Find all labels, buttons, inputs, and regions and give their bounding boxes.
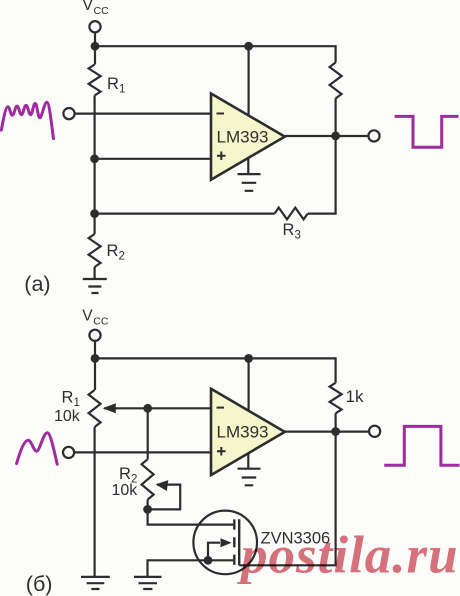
op-amp minus pin label (a) bbox=[217, 113, 225, 115]
svg-text:postila.ru: postila.ru bbox=[237, 527, 459, 585]
label (а) bbox=[24, 272, 50, 296]
body arrowhead Q1 bbox=[221, 538, 232, 547]
node R2 bottom junction (b) bbox=[143, 505, 152, 514]
ground op-amp (a) bbox=[238, 174, 261, 191]
svg-text:1: 1 bbox=[74, 397, 80, 409]
resistor R3 (a) bbox=[275, 208, 308, 220]
node output junction (a) bbox=[331, 132, 340, 141]
op-amp plus pin label (a) bbox=[217, 152, 226, 161]
wire R1 bottom to R2 top (a) bbox=[93, 96, 95, 235]
label R2 (a) bbox=[107, 242, 125, 263]
wire divider node to non-inverting input (a) bbox=[95, 158, 211, 160]
Vcc terminal (a) bbox=[89, 21, 100, 32]
svg-text:R: R bbox=[107, 75, 119, 93]
node divider junction to + input (a) bbox=[90, 154, 99, 163]
label 1k (b) bbox=[346, 387, 364, 406]
wire Vcc terminal to R1 top (a) bbox=[94, 32, 96, 64]
wire R1 bottom to ground (b) bbox=[93, 427, 95, 577]
svg-text:R: R bbox=[283, 221, 295, 239]
label ZVN3306 bbox=[261, 530, 331, 548]
wire R2 bottom through node to MOSFET drain (b) bbox=[148, 500, 234, 525]
Vcc label (b) bbox=[82, 307, 109, 327]
input waveform (b) bbox=[17, 433, 58, 465]
svg-text:R: R bbox=[62, 388, 74, 406]
label R2 10k (b) bbox=[112, 465, 139, 499]
svg-text:3: 3 bbox=[295, 230, 301, 242]
svg-text:(б): (б) bbox=[26, 572, 53, 596]
resistor 1k (b) bbox=[330, 383, 342, 414]
wire 1k bottom to output node (b) bbox=[335, 413, 337, 431]
output terminal (b) bbox=[369, 426, 380, 437]
wire op-amp output (a) bbox=[285, 135, 369, 137]
wire Vcc terminal to R1 top (b) bbox=[94, 341, 96, 390]
node V+ branch junction (a) bbox=[244, 42, 253, 51]
svg-text:1: 1 bbox=[119, 84, 125, 96]
op-amp U1 LM393 (a) bbox=[211, 94, 285, 180]
wire feedback node to R3 (a) bbox=[95, 213, 275, 215]
label (б) bbox=[26, 572, 53, 596]
node output junction (b) bbox=[331, 427, 340, 436]
potentiometer R1 10k (b) bbox=[89, 390, 101, 427]
output waveform (a) bbox=[395, 116, 459, 147]
resistor R2 (a) bbox=[89, 234, 101, 267]
wire op-amp ground pin (a) bbox=[247, 158, 249, 174]
label R3 (a) bbox=[283, 221, 301, 242]
wire input terminal to inverting input (a) bbox=[75, 112, 211, 114]
wire V+ supply branch to op-amp (a) bbox=[248, 46, 250, 115]
svg-text:1k: 1k bbox=[346, 387, 364, 406]
ground bottom (a) bbox=[83, 279, 107, 293]
transistor Q1 gate bar bbox=[238, 519, 240, 565]
svg-text:V: V bbox=[83, 0, 94, 14]
op-amp plus pin label (b) bbox=[217, 447, 226, 456]
Vcc terminal (b) bbox=[89, 330, 100, 341]
ground op-amp (b) bbox=[238, 469, 261, 486]
node V+ branch junction (b) bbox=[244, 354, 253, 363]
op-amp U2 LM393 (b) bbox=[211, 389, 285, 475]
node Vcc rail junction (b) bbox=[91, 354, 100, 363]
svg-text:10k: 10k bbox=[112, 482, 139, 499]
node MOSFET source junction bbox=[204, 556, 213, 565]
op-amp minus pin label (b) bbox=[217, 407, 225, 409]
wire MOSFET body arrow stub bbox=[208, 543, 220, 561]
transistor Q1 ZVN3306 body circle bbox=[193, 511, 257, 575]
wire Vcc top rail (b) bbox=[95, 358, 336, 382]
svg-text:10k: 10k bbox=[54, 408, 81, 425]
svg-text:2: 2 bbox=[119, 251, 125, 263]
wire Vcc top rail (a) bbox=[95, 46, 336, 62]
svg-text:R: R bbox=[107, 242, 119, 260]
wire R1 wiper to inverting input (b) bbox=[104, 407, 211, 409]
potentiometer R2 10k (b) bbox=[142, 459, 154, 499]
node feedback junction (a) bbox=[90, 209, 99, 218]
wire pull-up bottom through output node down to R3 (a) bbox=[308, 99, 336, 214]
svg-text:(а): (а) bbox=[24, 272, 50, 296]
node wiper junction (b) bbox=[143, 404, 152, 413]
label LM393 (a) bbox=[217, 127, 269, 146]
wire R2 wiper bracket to bottom node (b) bbox=[148, 485, 181, 510]
wire MOSFET source lead to ground (b) bbox=[148, 560, 234, 577]
wiper arrowhead R2 (b) bbox=[156, 480, 169, 491]
ground MOSFET (b) bbox=[134, 577, 162, 589]
resistor pull-up (a) bbox=[330, 63, 342, 99]
output terminal (a) bbox=[368, 130, 379, 141]
output waveform (b) bbox=[384, 426, 459, 465]
svg-text:LM393: LM393 bbox=[217, 423, 269, 442]
input terminal (a) bbox=[63, 108, 74, 119]
transistor Q1 channel dashes bbox=[233, 519, 235, 565]
wire output node down to MOSFET gate (b) bbox=[239, 432, 335, 566]
ground left rail (b) bbox=[81, 577, 110, 589]
svg-text:CC: CC bbox=[93, 315, 109, 327]
resistor R1 (a) bbox=[89, 65, 101, 96]
wire R2 bottom to ground (a) bbox=[93, 267, 95, 279]
wiper arrowhead R1 (b) bbox=[103, 403, 116, 413]
input terminal (b) bbox=[63, 447, 74, 458]
wire wiper node down to R2 top (b) bbox=[147, 408, 149, 459]
wire op-amp output (b) bbox=[285, 431, 369, 433]
svg-text:CC: CC bbox=[94, 5, 110, 17]
node Vcc rail junction (a) bbox=[91, 42, 100, 51]
wire input terminal to non-inverting input (b) bbox=[74, 451, 211, 453]
label LM393 (b) bbox=[217, 423, 269, 442]
Vcc label (a) bbox=[83, 0, 110, 17]
svg-text:LM393: LM393 bbox=[217, 127, 269, 146]
wire V+ supply branch to op-amp (b) bbox=[248, 358, 250, 411]
label R1 (a) bbox=[107, 75, 125, 96]
label R1 10k (b) bbox=[54, 388, 81, 425]
input waveform (a) bbox=[1, 102, 53, 139]
svg-text:V: V bbox=[82, 307, 93, 324]
wire op-amp ground pin (b) bbox=[247, 453, 249, 468]
svg-text:R: R bbox=[119, 465, 131, 483]
